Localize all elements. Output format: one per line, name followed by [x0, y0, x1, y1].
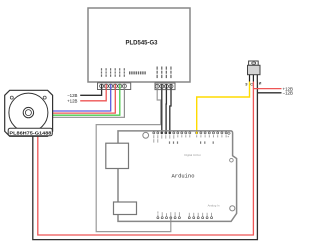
svg-text:−12В: −12В: [283, 91, 293, 96]
motor mount hole top-left: [10, 96, 13, 99]
wire gray GND loop: driver pin to Arduino GND around left side: [96, 90, 171, 232]
svg-text:+12В: +12В: [67, 99, 77, 104]
driver PLD545-G3 box: [88, 8, 190, 82]
svg-text:PL86H75-G1488: PL86H75-G1488: [9, 131, 52, 136]
driver right connector block: [155, 83, 175, 90]
wire driver -12V input (black) to label: [80, 90, 101, 96]
Arduino board outline: [118, 131, 237, 222]
Arduino USB connector: [106, 143, 129, 168]
motor shaft circles: [23, 107, 33, 117]
svg-text:PLD545-G3: PLD545-G3: [126, 41, 159, 47]
wire motor phase blue: [52, 90, 110, 112]
svg-text:−12В: −12В: [67, 93, 77, 98]
motor mount hole top-right: [43, 96, 46, 99]
connector pins left: [100, 84, 127, 88]
Arduino top header left group pins: [153, 132, 191, 134]
motor face circle: [9, 93, 48, 132]
svg-text:Digital In/Out: Digital In/Out: [184, 153, 200, 157]
wire black signal 3 driver to Arduino: [170, 90, 171, 133]
wire black signal 1 driver to Arduino: [161, 90, 163, 133]
transistor Q1 body: [248, 65, 261, 74]
transistor Q1 legs: [250, 75, 258, 82]
wire -12V label stub right: [257, 92, 281, 94]
Arduino analog labels: [189, 213, 212, 217]
svg-text:С: С: [250, 82, 253, 86]
transistor Q1 tab: [249, 61, 259, 65]
connector wire segments through pins (left): [102, 84, 125, 89]
Arduino bottom power pins: [157, 217, 181, 219]
wire motor phase red: [52, 90, 115, 114]
wire stubs entering Arduino pins: [161, 132, 163, 134]
wire motor phase green: [52, 90, 120, 116]
connector wire segments through pins (right): [157, 85, 171, 90]
wire -12V power rail (black) right side / bottom / left under motor: [33, 82, 258, 240]
wire driver +12V input (red) to label: [80, 90, 106, 101]
svg-text:Analog In: Analog In: [208, 203, 220, 207]
Arduino bottom power labels: [157, 211, 179, 216]
connector pins right: [155, 84, 173, 88]
wire +12V label stub right: [253, 88, 281, 90]
svg-text:З: З: [245, 82, 248, 86]
Arduino top pin labels left group: [153, 135, 190, 142]
Arduino analog pins: [188, 217, 212, 219]
svg-text:И: И: [259, 82, 262, 86]
PWM marks left: [169, 141, 178, 143]
Arduino top header right group pins: [196, 132, 227, 134]
Arduino hole top-left: [143, 132, 149, 138]
wire black signal 2 driver to Arduino: [165, 90, 167, 133]
motor PL86H75 body octagon: [5, 90, 53, 136]
wire motor phase gray: [52, 90, 124, 118]
driver right terminal labels (rotated smudges): [157, 67, 172, 79]
wire +12V power rail (red) right side / bottom / left under motor: [38, 82, 254, 236]
Arduino top pin labels right group: [196, 135, 226, 137]
driver dip switch digits: [129, 71, 146, 74]
driver left connector block: [98, 83, 131, 90]
corner notch diamond: [227, 132, 230, 135]
Arduino power jack: [114, 202, 137, 215]
svg-text:Arduino: Arduino: [172, 174, 195, 180]
corner dot: [228, 136, 229, 137]
wire yellow gate to Arduino pin 7: [197, 82, 250, 134]
Arduino hole right-middle: [230, 158, 234, 162]
Arduino hole bottom-right: [230, 206, 235, 211]
driver left terminal labels (rotated smudges): [101, 68, 125, 77]
transistor Q1 tab hole: [252, 62, 256, 64]
PWM marks right: [200, 141, 214, 143]
motor label sticker: [8, 128, 52, 136]
